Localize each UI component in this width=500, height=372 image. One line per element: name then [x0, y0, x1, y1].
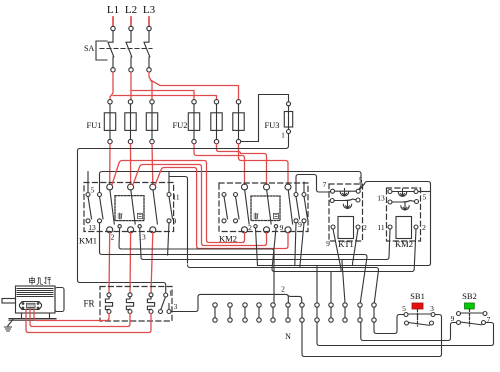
fuse FU2-1: [188, 100, 199, 144]
KM1 main contact 1: [107, 184, 115, 233]
motor terminal box: [20, 302, 42, 310]
svg-text:SA: SA: [84, 44, 94, 53]
svg-text:2: 2: [111, 233, 115, 242]
fuse FU1-1: [104, 100, 115, 144]
wire FU1-2 to KM1 main2: [130, 144, 132, 185]
terminal t12: [372, 303, 376, 322]
ground symbol: [5, 320, 14, 332]
wire SA pole3 to FU1 fuse3: [149, 72, 152, 100]
wire motor to FR heater2: [30, 310, 130, 327]
motor label: [30, 277, 51, 285]
svg-text:FU2: FU2: [172, 120, 187, 130]
terminal t11: [358, 303, 362, 322]
KM1 coil pin 13: [138, 225, 141, 228]
SB2 plunger dashed: [469, 309, 471, 326]
wire L3 feed: [148, 17, 150, 26]
switch SA pole 3: [144, 26, 151, 72]
motor shaft: [2, 299, 16, 304]
svg-text:1: 1: [169, 290, 173, 298]
svg-text:13: 13: [377, 194, 385, 203]
svg-text:9: 9: [280, 223, 284, 232]
SB1 NC contact: [404, 313, 435, 317]
svg-text:L2: L2: [125, 4, 137, 16]
KM2 aux contact c: [294, 193, 300, 223]
wire 2: FR contact to terminal t6: [171, 294, 288, 311]
KM2cb coil: [396, 217, 412, 239]
wire KM2 aux c bottom to busE: [295, 223, 296, 266]
svg-text:SB2: SB2: [462, 291, 477, 301]
wire 1: FU3 to FR contact: [78, 134, 289, 293]
wire KM1 main2 bottom to FR heater2: [129, 233, 132, 293]
svg-text:11: 11: [377, 223, 384, 232]
KM1 main contact 2: [128, 184, 136, 233]
wire over KM1 aux 11 (loop): [170, 177, 188, 264]
wire KM1 top bus to aux contacts: [88, 172, 361, 193]
wire L2 feed: [130, 17, 132, 26]
KM1 coil pin 2: [118, 225, 121, 228]
FR heater 1: [105, 293, 112, 314]
wire bus P13 branch to terminal t10: [342, 260, 345, 303]
wire 2 branch to terminal t7: [288, 296, 302, 303]
svg-text:3: 3: [174, 303, 178, 311]
wire KM1 aux9 down to bus: [168, 223, 169, 255]
wire bus F drop to terminal t9: [330, 272, 332, 304]
time relay KT1 dashed box: [329, 184, 363, 241]
SB2 NC contact: [457, 312, 488, 316]
button SB2 cap (green): [465, 303, 475, 309]
wire FU1-1 to KM1 main1: [109, 144, 111, 185]
KM2 main contact 3: [285, 184, 293, 233]
KM2cb coil pin right: [414, 225, 418, 229]
wire bus B aux2 to terminal t11: [100, 223, 368, 303]
motor body: [16, 286, 65, 313]
KM2cb contact 1: [388, 189, 418, 196]
SB1 NO contact: [405, 321, 434, 325]
wire crossover KM1 main1 top to KM2 main1 bottom: [112, 161, 245, 243]
terminal t3: [243, 303, 247, 322]
fuse FU2-3: [233, 100, 244, 144]
wire SA pole2 to FU1 fuse2: [130, 72, 132, 100]
svg-text:L3: L3: [143, 4, 156, 16]
svg-text:N: N: [285, 332, 291, 341]
svg-text:11: 11: [172, 193, 179, 202]
svg-text:9: 9: [298, 220, 302, 229]
terminal t7: [300, 303, 304, 322]
wire KT1 pin right join busE: [353, 229, 359, 266]
svg-text:9: 9: [326, 239, 330, 248]
svg-text:13: 13: [88, 223, 96, 232]
svg-text:5: 5: [423, 193, 427, 202]
terminal strip: [213, 303, 376, 322]
wire KM1 coil pin13 down to bus: [140, 228, 390, 260]
terminal t2: [228, 303, 232, 322]
wire SB1 right to terminal t7: [302, 315, 442, 357]
KM2 main contact 1: [242, 184, 250, 233]
wire KM1 main1 bottom to FR heater1: [108, 233, 111, 293]
wire KM2 aux d bottom to box bus: [300, 223, 304, 268]
button SB1 cap (red): [412, 303, 423, 309]
svg-text:L1: L1: [107, 4, 119, 16]
wire KM2 aux d stub: [303, 182, 305, 193]
contactor KM1 dashed box: [84, 183, 174, 232]
KM1 coil char xian: [118, 213, 122, 219]
FR heater 2: [126, 293, 133, 314]
switch SA link (dashed): [100, 48, 152, 50]
wire loop-box bus to terminal t12: [188, 265, 379, 303]
KT1 coil pin right: [356, 225, 360, 229]
wire motor to FR heater1: [34, 310, 109, 321]
terminal t6 N: [286, 303, 290, 322]
svg-text:5: 5: [91, 186, 95, 195]
FR NC contact: [159, 293, 172, 314]
svg-text:5: 5: [402, 304, 406, 313]
wire KM2 coil pin2 to bus E: [256, 228, 258, 266]
svg-text:5: 5: [359, 176, 363, 185]
KM1 aux contact 5-13: [86, 193, 92, 223]
terminal t4: [257, 303, 261, 322]
wire KM1 coil pin2 down to bus: [119, 228, 274, 303]
svg-text:7: 7: [323, 180, 327, 189]
KM2 coil box (dotted): [251, 196, 280, 221]
KT1 coil pin left: [331, 225, 335, 229]
wire KM1 main3 bottom to FR heater3: [151, 233, 153, 293]
KM2 coil pin 2: [254, 225, 257, 228]
wire L1 feed: [112, 17, 114, 26]
svg-text:FU3: FU3: [264, 120, 279, 130]
terminal t5: [271, 303, 275, 322]
wire KM2coil 5 stub: [419, 191, 431, 193]
terminal t8: [315, 303, 319, 322]
wire KM2 aux c to node 7: [296, 175, 331, 193]
SB1 plunger dashed: [417, 309, 419, 326]
wire FU2-3 to KM2 main3: [239, 144, 289, 185]
svg-text:9: 9: [173, 217, 177, 226]
svg-text:9: 9: [451, 314, 455, 323]
wire crossover KM1 main2 top to KM2 main2 bottom: [133, 165, 267, 246]
terminal t10: [343, 303, 347, 322]
motor legs and base: [9, 313, 56, 320]
svg-text:KM2: KM2: [395, 239, 413, 249]
wire SA pole1 to FU1 fuse1: [110, 72, 113, 100]
KM2cb contact 2: [388, 200, 419, 211]
wire KT1 pin left join busF: [333, 229, 341, 272]
wire SB2 left to terminal t11: [361, 322, 457, 340]
fuse FU1-2: [125, 100, 136, 144]
wire terminal t8 to SB2 right: [317, 322, 494, 345]
fuse FU2-2: [211, 100, 222, 144]
svg-text:3: 3: [430, 304, 434, 313]
switch SA pole 2: [126, 26, 133, 72]
KM2 coil char quan: [274, 213, 279, 218]
contactor KM2 dashed box: [219, 183, 308, 232]
thermal relay FR dashed box: [100, 287, 172, 322]
KM1 coil char quan: [138, 213, 143, 218]
SB2 NO contact: [457, 321, 486, 325]
svg-text:2: 2: [422, 223, 426, 232]
KM1 coil box (dotted): [115, 196, 144, 221]
wire FU1-3 to KM1 main3: [151, 144, 154, 185]
KM2 aux contact d: [302, 193, 308, 223]
contactor KM2 coil-block dashed box: [387, 188, 421, 241]
svg-text:2: 2: [363, 223, 367, 232]
svg-text:KM1: KM1: [79, 236, 97, 246]
KM2 coil char xian: [254, 213, 258, 219]
svg-text:FR: FR: [83, 299, 94, 309]
wire SA pole2 branch to FU2 fuse1: [131, 91, 194, 100]
wire KM2 coil pin9 to bus F: [272, 228, 416, 272]
terminal t9: [329, 303, 333, 322]
wire bus E drop to terminal t8: [316, 266, 318, 304]
svg-text:1: 1: [281, 131, 285, 140]
KM1 aux contact 2: [98, 193, 104, 223]
KT1 delayed contact 1: [331, 189, 361, 196]
wire FU2-1 to KM2 main1: [194, 144, 245, 185]
wire FU2-3 to FU3 feed loop: [241, 95, 289, 142]
wire SA pole1 branch to FU2 fuse2: [113, 96, 217, 100]
wire terminal t12 to SB1 left: [374, 315, 404, 334]
KM2 coil pin 9: [274, 225, 277, 228]
KM2 aux contact b: [234, 193, 240, 223]
wire motor to FR heater3: [26, 310, 151, 333]
svg-text:KT1: KT1: [338, 239, 354, 249]
KT1 coil: [338, 217, 354, 239]
KM2 aux contact a: [222, 193, 228, 223]
KT1 delayed contact 2: [330, 198, 360, 209]
wire SA pole3 branch to FU2 fuse3: [151, 80, 239, 100]
wire KT1 contact1 to KM2coil loop: [258, 182, 431, 266]
svg-text:FU1: FU1: [86, 120, 101, 130]
wire FU2-2 to KM2 main2: [217, 144, 267, 185]
wire crossover KM1 main3 top to KM2 main3 bottom: [155, 168, 288, 249]
KM2cb coil pin left: [388, 225, 392, 229]
switch SA bracket: [96, 41, 107, 60]
svg-text:SB1: SB1: [410, 291, 425, 301]
fuse FU1-3: [146, 100, 157, 144]
KM1 main contact 3: [150, 184, 158, 233]
fuse FU3: [284, 102, 292, 134]
FR heater 3: [147, 293, 154, 314]
KM1 aux contact 11-9: [167, 193, 173, 223]
KM2 main contact 2: [264, 184, 272, 233]
switch SA pole 1: [108, 26, 115, 72]
terminal t1: [213, 303, 217, 322]
svg-text:2: 2: [281, 285, 285, 294]
svg-text:2: 2: [248, 223, 252, 232]
